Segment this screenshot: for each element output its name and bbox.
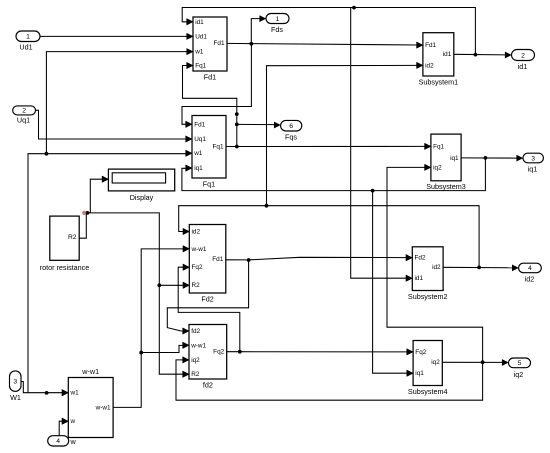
svg-text:Fd2: Fd2 (201, 294, 213, 303)
svg-text:w-w1: w-w1 (95, 404, 111, 411)
svg-text:iq1: iq1 (528, 164, 538, 173)
svg-text:W1: W1 (10, 393, 21, 402)
svg-text:Fd1: Fd1 (204, 72, 216, 81)
svg-text:Ud1: Ud1 (19, 43, 32, 52)
svg-text:Ud1: Ud1 (195, 33, 207, 40)
svg-text:3: 3 (13, 378, 17, 385)
svg-text:Fd1: Fd1 (194, 121, 205, 128)
svg-text:w1: w1 (194, 49, 204, 56)
svg-text:fd2: fd2 (203, 380, 213, 389)
svg-text:Display: Display (130, 193, 154, 202)
svg-text:Subsystem2: Subsystem2 (408, 292, 448, 301)
svg-text:Subsystem3: Subsystem3 (426, 182, 466, 191)
svg-text:4: 4 (528, 265, 532, 272)
svg-text:4: 4 (56, 438, 60, 445)
svg-text:Subsystem4: Subsystem4 (408, 387, 448, 396)
svg-text:fd2: fd2 (191, 328, 200, 335)
svg-text:1: 1 (26, 34, 30, 41)
svg-text:Fd1: Fd1 (425, 42, 436, 49)
svg-text:iq1: iq1 (194, 165, 203, 172)
svg-text:id1: id1 (518, 62, 528, 71)
svg-text:Uq1: Uq1 (194, 136, 206, 143)
svg-text:Fq2: Fq2 (192, 264, 203, 271)
svg-text:3: 3 (531, 155, 535, 162)
svg-text:w: w (70, 418, 76, 425)
svg-text:Fd1: Fd1 (212, 256, 223, 263)
svg-text:id1: id1 (443, 51, 452, 58)
svg-text:id2: id2 (425, 62, 434, 69)
svg-text:R2: R2 (192, 282, 201, 289)
svg-text:Fq1: Fq1 (203, 179, 215, 188)
svg-text:id1: id1 (415, 275, 424, 282)
svg-text:iq2: iq2 (191, 357, 200, 364)
svg-text:w1: w1 (193, 150, 203, 157)
svg-text:id2: id2 (192, 228, 201, 235)
svg-text:Fds: Fds (271, 25, 283, 34)
svg-text:rotor resistance: rotor resistance (40, 263, 90, 272)
svg-text:Fq2: Fq2 (213, 349, 224, 356)
svg-text:2: 2 (22, 108, 26, 115)
svg-text:1: 1 (276, 16, 280, 23)
svg-text:2: 2 (521, 52, 525, 59)
svg-text:id1: id1 (195, 19, 204, 26)
svg-text:iq2: iq2 (514, 370, 524, 379)
svg-text:w: w (70, 437, 77, 446)
svg-text:R2: R2 (68, 234, 77, 241)
svg-text:iq2: iq2 (431, 359, 440, 366)
svg-text:Uq1: Uq1 (17, 115, 30, 124)
svg-text:Fq1: Fq1 (433, 143, 444, 150)
svg-text:iq1: iq1 (450, 155, 459, 162)
svg-text:Fq2: Fq2 (415, 349, 426, 356)
svg-text:id2: id2 (432, 264, 441, 271)
svg-text:iq2: iq2 (433, 164, 442, 171)
svg-text:w-w1: w-w1 (190, 342, 206, 349)
svg-text:w-w1: w-w1 (191, 246, 207, 253)
svg-text:Fd1: Fd1 (213, 40, 224, 47)
svg-text:w-w1: w-w1 (81, 367, 99, 376)
svg-text:6: 6 (289, 123, 293, 130)
svg-text:Fq1: Fq1 (195, 62, 206, 69)
svg-text:Subsystem1: Subsystem1 (419, 77, 459, 86)
svg-text:iq1: iq1 (415, 370, 424, 377)
svg-text:R2: R2 (191, 371, 200, 378)
svg-text:Fd2: Fd2 (415, 255, 426, 262)
svg-text:Fq1: Fq1 (212, 143, 223, 150)
svg-text:w1: w1 (70, 390, 80, 397)
svg-text:5: 5 (518, 360, 522, 367)
svg-text:Fqs: Fqs (285, 133, 297, 142)
svg-text:id2: id2 (525, 275, 535, 284)
